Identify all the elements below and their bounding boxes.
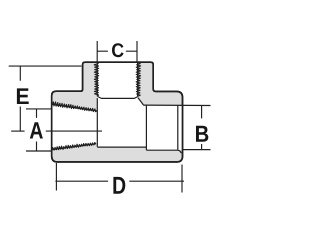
centerline through A (left segment, E bottom tick): [11, 130, 24, 132]
tee fitting body outer profile: [52, 62, 183, 162]
dimension C line (horizontal, y=51.2): [97, 50, 137, 52]
dimension A bottom extension line: [26, 150, 52, 152]
dimension C extension ticks: [97, 41, 137, 62]
run bore (white): [97, 97, 146, 148]
chamfer from branch bore to socket: [138, 98, 144, 105]
socket end wall: [145, 105, 147, 151]
branch bore seat and chamfers: [97, 96, 137, 98]
branch left internal thread: [96, 62, 98, 96]
left port bottom thread (tapered): [52, 144, 96, 150]
outer profile re-stroke over openings: [52, 62, 183, 162]
label E: [17, 88, 29, 104]
centerline through bore: [46, 130, 102, 132]
B bottom extension line: [183, 149, 211, 151]
label A: [30, 122, 43, 138]
label C: [112, 43, 124, 57]
left port top thread (tapered): [52, 104, 97, 111]
right socket bore (white): [146, 105, 181, 150]
dimension E top extension line: [9, 65, 82, 67]
label B: [196, 126, 208, 142]
branch right internal thread: [137, 62, 139, 96]
socket top line + B top extension: [143, 104, 210, 106]
left port thread end wall: [96, 98, 98, 147]
dimension E line (vertical, x=20.3): [19, 66, 21, 131]
dimension A line (vertical, x=36.5): [36, 109, 38, 151]
dimension A top extension line: [26, 108, 52, 110]
dimension D line (horizontal, y=181.5): [55, 180, 184, 182]
socket face inner edge: [177, 106, 179, 150]
run bore bottom line: [97, 146, 146, 148]
socket bottom line: [146, 150, 181, 153]
branch bore (white): [97, 61, 137, 98]
label D: [113, 177, 125, 194]
dimension B line (vertical, x=201.6): [201, 106, 203, 150]
left port threaded bore (white): [52, 104, 97, 149]
dimension D left extension line: [55, 163, 57, 191]
dimension D right extension line: [181, 165, 183, 193]
